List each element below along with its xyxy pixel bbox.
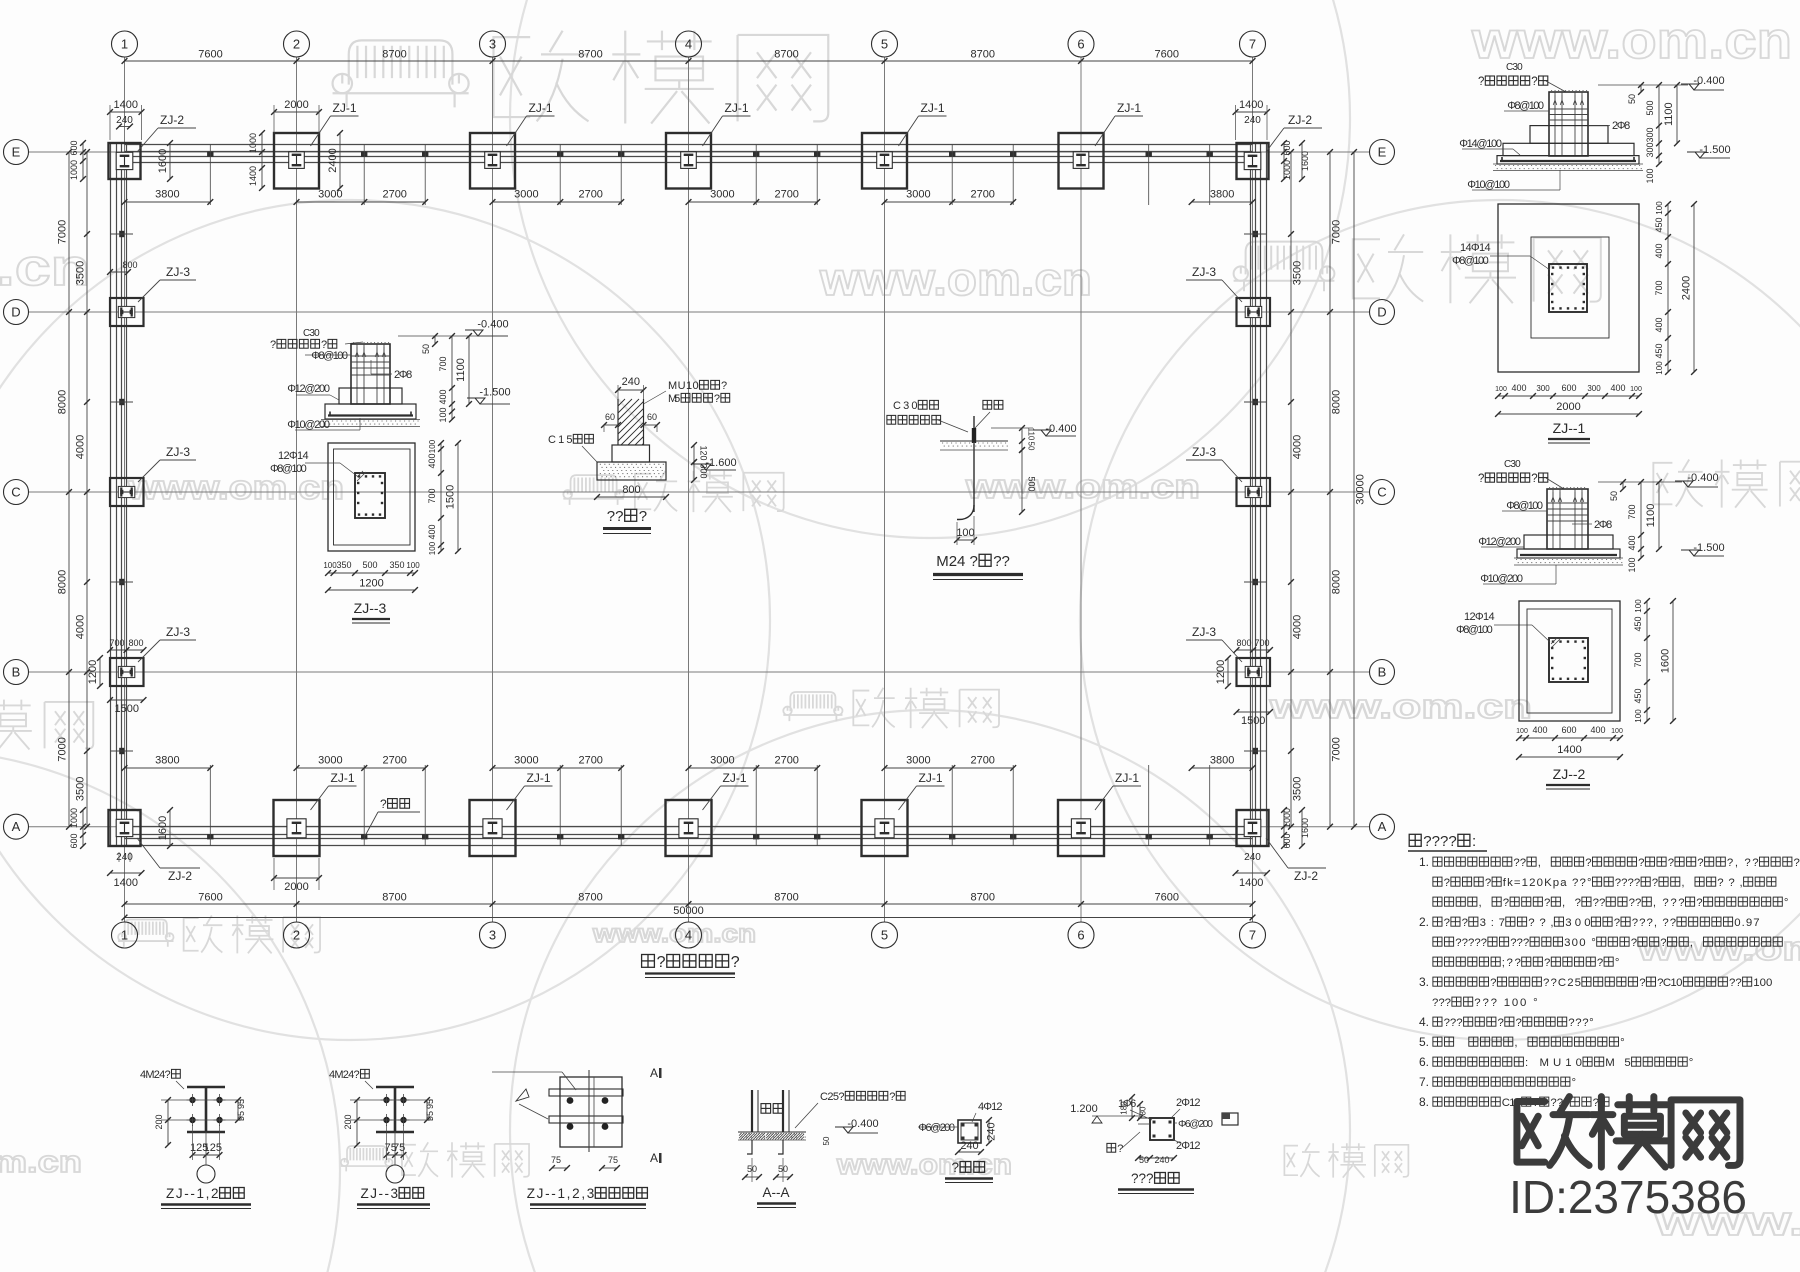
- svg-text:500: 500: [1027, 476, 1037, 491]
- svg-text:1600: 1600: [1300, 818, 1310, 838]
- detail ZJ-3 section left labels: [311, 350, 348, 362]
- svg-text:Φ8@100: Φ8@100: [1507, 100, 1544, 112]
- svg-text:ZJ-1: ZJ-1: [527, 771, 551, 785]
- svg-text:400: 400: [1511, 383, 1526, 393]
- footing ZJ-1 row A axis 2: [274, 800, 320, 856]
- svg-text:Φ10@200: Φ10@200: [1480, 573, 1523, 585]
- svg-text:?: ?: [1444, 877, 1450, 889]
- axis circles top: [112, 31, 138, 57]
- svg-text:°: °: [1689, 1057, 1694, 1069]
- footing ZJ-3 axis7 row B: [1237, 658, 1271, 686]
- svg-text:??? 100 °: ??? 100 °: [1474, 997, 1537, 1009]
- svg-text:7600: 7600: [1155, 892, 1179, 904]
- corner small dims top-right 1400 240: [1236, 111, 1268, 113]
- svg-text:2Φ8: 2Φ8: [394, 369, 412, 381]
- svg-text:°: °: [1572, 1077, 1577, 1089]
- footing ZJ-2 corner axis7/A: [1237, 810, 1269, 846]
- svg-text:450: 450: [1633, 688, 1643, 703]
- svg-text:ZJ--1,2,3: ZJ--1,2,3: [527, 1186, 595, 1201]
- svg-text:Φ10@200: Φ10@200: [287, 419, 330, 431]
- svg-text:350: 350: [336, 560, 351, 570]
- detail ZJ-1 section steps: [1530, 126, 1608, 144]
- svg-text:?: ?: [731, 954, 740, 971]
- corner small dims top-left 1400 240: [110, 111, 142, 113]
- svg-text:75: 75: [608, 1155, 618, 1165]
- svg-text:60: 60: [647, 412, 657, 422]
- detail strip footing dim 240: [618, 389, 644, 391]
- svg-text:????: ????: [1615, 877, 1640, 889]
- svg-text:Φ8@100: Φ8@100: [311, 350, 348, 362]
- watermark sofa+logo row5 left: [118, 916, 320, 954]
- right overall dimension 30000: [1353, 152, 1355, 827]
- detail shear plate leaders: [492, 1071, 562, 1073]
- svg-text:1: 1: [121, 928, 128, 943]
- label ZJ-2 top-right with leader: [1266, 128, 1284, 152]
- svg-text:4: 4: [685, 37, 692, 52]
- svg-text:2700: 2700: [970, 755, 994, 767]
- svg-text:3800: 3800: [155, 755, 179, 767]
- svg-text:8700: 8700: [774, 49, 798, 61]
- svg-text:400: 400: [1532, 725, 1547, 735]
- embed bolt circle mark: [386, 1165, 404, 1183]
- footing ZJ-2 corner axis7/E: [1237, 143, 1269, 179]
- svg-text:600: 600: [69, 833, 79, 848]
- detail ZJ-1 plan right dim chain: [1667, 204, 1669, 372]
- svg-text:1000: 1000: [1282, 808, 1292, 828]
- svg-text:www.om.cn: www.om.cn: [819, 253, 1092, 305]
- right inner dim chain 3500 4000 4000 3500: [1290, 152, 1292, 827]
- svg-text:C: C: [11, 485, 20, 500]
- svg-text:300: 300: [1645, 142, 1655, 157]
- svg-text:ZJ-1: ZJ-1: [725, 101, 749, 115]
- svg-text:5.: 5.: [1419, 1035, 1429, 1049]
- left inner dim chain 3500 4000 4000 3500: [86, 152, 88, 827]
- svg-text:??: ??: [1629, 897, 1642, 909]
- svg-text:1000: 1000: [1282, 160, 1292, 180]
- svg-text:?: ?: [1660, 937, 1666, 949]
- svg-text:°: °: [1620, 1037, 1625, 1049]
- detail ZJ-3 plan column with rebar: [355, 473, 385, 518]
- axis 7 strip foundation wall lines: [1250, 143, 1252, 847]
- footing ZJ-2 corner axis1/E: [109, 143, 141, 179]
- svg-text:ZJ-1: ZJ-1: [1115, 771, 1139, 785]
- svg-text:,: ,: [1514, 1037, 1517, 1049]
- svg-text:100: 100: [428, 439, 437, 453]
- svg-text:4000: 4000: [1292, 435, 1304, 459]
- row A sub dimension chains 3800 / 3000 2700: [125, 767, 211, 769]
- svg-text:°: °: [1615, 957, 1620, 969]
- watermark sofa+logo bottom row: [341, 1142, 529, 1177]
- svg-text:Φ8@100: Φ8@100: [270, 463, 307, 475]
- svg-text:8700: 8700: [971, 892, 995, 904]
- svg-text:2Φ8: 2Φ8: [1594, 519, 1612, 531]
- svg-text::: :: [1472, 833, 1476, 850]
- svg-text:12Φ14: 12Φ14: [278, 450, 309, 462]
- svg-text:?: ?: [889, 1091, 895, 1103]
- svg-text:2000: 2000: [1556, 401, 1580, 413]
- svg-text:600: 600: [1282, 833, 1292, 848]
- svg-text:Φ12@200: Φ12@200: [1478, 536, 1521, 548]
- svg-text:800: 800: [1236, 638, 1251, 648]
- notes line cont: [1432, 997, 1538, 1009]
- label ZJ-2 bottom-left with leader: [137, 838, 160, 868]
- svg-text:A: A: [650, 1066, 658, 1080]
- svg-text:100: 100: [1611, 728, 1623, 735]
- axis circles left: [4, 140, 29, 165]
- detail ZJ-2 plan outer square: [1519, 601, 1620, 721]
- labels ZJ-1 row A with leaders: [311, 786, 329, 810]
- svg-text:ZJ-1: ZJ-1: [723, 771, 747, 785]
- svg-text:400: 400: [1654, 243, 1664, 258]
- svg-text:?: ?: [952, 1160, 960, 1175]
- detail strip footing right dims: [693, 445, 695, 462]
- svg-text:300: 300: [1565, 917, 1590, 929]
- embed bolt dims: [356, 1100, 358, 1145]
- detail ZJ-3 plan bottom dim chain: [328, 572, 415, 574]
- svg-text:??: ??: [993, 553, 1010, 570]
- svg-text:240: 240: [986, 1122, 998, 1140]
- detail A-A ground hatch: [738, 1131, 806, 1133]
- detail A-A labels: [761, 1104, 783, 1114]
- svg-text:4: 4: [685, 928, 692, 943]
- svg-text:-0.400: -0.400: [1687, 472, 1718, 484]
- svg-text:4000: 4000: [75, 435, 87, 459]
- svg-text:2700: 2700: [774, 189, 798, 201]
- detail strip footing title: [607, 508, 647, 525]
- svg-text:2: 2: [293, 37, 300, 52]
- svg-text:?: ?: [1544, 897, 1550, 909]
- detail strip footing label C15: [548, 434, 593, 446]
- svg-text:Φ6@200: Φ6@200: [1178, 1118, 1213, 1130]
- svg-text:3800: 3800: [155, 189, 179, 201]
- svg-text:400: 400: [1627, 535, 1637, 550]
- svg-text:M24 ?: M24 ?: [936, 553, 978, 570]
- svg-text:M5: M5: [668, 393, 680, 405]
- svg-text:500: 500: [1645, 100, 1655, 115]
- svg-text:?: ?: [1614, 917, 1620, 929]
- svg-text:2700: 2700: [578, 189, 602, 201]
- svg-text:3000: 3000: [514, 755, 538, 767]
- svg-text:450: 450: [1633, 616, 1643, 631]
- svg-text:E: E: [1378, 145, 1387, 160]
- svg-text:ZJ-2: ZJ-2: [168, 869, 192, 883]
- svg-text:1500: 1500: [115, 703, 139, 715]
- detail ZJ-1,2 embed title: [166, 1186, 244, 1201]
- svg-text:240: 240: [622, 376, 640, 388]
- detail ZJ-1 section slab and mat: [1497, 156, 1639, 164]
- svg-text:100: 100: [1753, 977, 1772, 989]
- svg-text:C30: C30: [893, 400, 918, 412]
- svg-text:???: ???: [1131, 1171, 1154, 1186]
- svg-text:1000: 1000: [69, 160, 79, 180]
- svg-text:ZJ--3: ZJ--3: [361, 1186, 399, 1201]
- svg-text:1500: 1500: [1241, 715, 1265, 727]
- detail M24 ground line with speckle: [940, 440, 1008, 442]
- svg-text:4000: 4000: [1292, 615, 1304, 639]
- svg-text:400: 400: [1610, 383, 1625, 393]
- svg-text:700: 700: [1627, 504, 1637, 519]
- label constructional column row A with leader: [365, 812, 378, 836]
- svg-text:100: 100: [323, 561, 337, 570]
- svg-text:100: 100: [1627, 557, 1637, 572]
- axis circles right: [1370, 140, 1395, 165]
- svg-text:50: 50: [421, 344, 431, 354]
- svg-text:?: ?: [1531, 76, 1537, 88]
- svg-text:?: ?: [1490, 977, 1496, 989]
- svg-text:100: 100: [1655, 201, 1664, 215]
- detail M24 label top: [983, 400, 1003, 409]
- corner rotated dims top-left 600 1000 1600: [82, 143, 84, 179]
- svg-text:?: ?: [1516, 1017, 1522, 1029]
- svg-text:1400: 1400: [248, 166, 258, 186]
- svg-text:100: 100: [428, 541, 437, 555]
- svg-text:-1.600: -1.600: [705, 457, 736, 469]
- svg-text:om.cn: om.cn: [0, 1144, 82, 1179]
- svg-text:ZJ-1: ZJ-1: [529, 101, 553, 115]
- svg-text:?: ?: [721, 380, 727, 392]
- svg-text:400: 400: [1590, 725, 1605, 735]
- svg-text:300: 300: [1587, 384, 1601, 393]
- svg-text:1600: 1600: [157, 149, 169, 173]
- svg-text:50: 50: [1027, 442, 1036, 451]
- svg-text:7000: 7000: [1331, 737, 1343, 761]
- svg-text:ZJ-1: ZJ-1: [921, 101, 945, 115]
- detail ring beam title: [1131, 1171, 1179, 1186]
- svg-text:3500: 3500: [75, 261, 87, 285]
- svg-text:ZJ-2: ZJ-2: [1288, 113, 1312, 127]
- svg-text:,: ,: [1538, 857, 1541, 869]
- svg-text:100: 100: [1645, 168, 1655, 183]
- svg-text:2400: 2400: [1681, 276, 1693, 300]
- svg-text:?: ?: [1585, 857, 1591, 869]
- detail ZJ-3 embed title: [361, 1186, 424, 1201]
- bottom overall dimension 50000: [125, 917, 1253, 919]
- svg-text:ZJ-1: ZJ-1: [331, 771, 355, 785]
- svg-text:?: ?: [1498, 1017, 1504, 1029]
- svg-text:A: A: [1378, 819, 1387, 834]
- svg-text:D: D: [1377, 305, 1386, 320]
- svg-text:ZJ-1: ZJ-1: [333, 101, 357, 115]
- svg-text:1500: 1500: [445, 485, 457, 509]
- detail ZJ-1 section labels C30: [1506, 62, 1523, 73]
- svg-text:2Φ12: 2Φ12: [1176, 1140, 1201, 1152]
- svg-text:180: 180: [1120, 1101, 1129, 1115]
- svg-text:2Φ12: 2Φ12: [1176, 1097, 1201, 1109]
- detail ring beam dims: [1131, 1097, 1133, 1118]
- bottom dimension chain 7600+8700x4+7600: [125, 903, 1253, 905]
- svg-text:350: 350: [389, 560, 404, 570]
- svg-text:?: ?: [1597, 957, 1603, 969]
- svg-text:D: D: [11, 305, 20, 320]
- detail ZJ-2 plan right dim chain: [1646, 601, 1648, 721]
- footing ZJ-1 row A axis 4: [666, 800, 712, 856]
- svg-text:8000: 8000: [1331, 390, 1343, 414]
- svg-text:?: ?: [1631, 937, 1637, 949]
- svg-text:?: ?: [1639, 977, 1645, 989]
- detail ZJ-3 plan outer squares: [328, 443, 415, 551]
- row E strip foundation wall lines: [125, 144, 1253, 146]
- footing ZJ-1 row E axis 4: [666, 133, 711, 189]
- svg-text:??: ??: [1513, 857, 1526, 869]
- detail M24 title: [936, 553, 1010, 570]
- footing ZJ-3 axis7 row D: [1237, 298, 1271, 326]
- svg-text:8000: 8000: [1331, 570, 1343, 594]
- svg-text:7600: 7600: [198, 892, 222, 904]
- svg-text:1: 1: [121, 37, 128, 52]
- svg-text:100: 100: [1634, 709, 1643, 723]
- svg-text:400: 400: [427, 524, 437, 539]
- axis grid vertical lines 1-7: [125, 57, 1253, 922]
- svg-text:95: 95: [425, 1099, 435, 1109]
- svg-text:??: ??: [1729, 977, 1742, 989]
- svg-text:0.97: 0.97: [1734, 917, 1759, 929]
- detail column base shear plate: [560, 1077, 622, 1147]
- svg-text:www.om.cn: www.om.cn: [127, 469, 344, 507]
- watermark sofa+logo row4 center: [783, 688, 999, 728]
- svg-text:ZJ-1: ZJ-1: [1117, 101, 1141, 115]
- svg-text:,: ,: [1681, 877, 1684, 889]
- svg-text:?: ?: [1462, 917, 1468, 929]
- svg-text:8700: 8700: [578, 49, 602, 61]
- axis7 row B dims 800 700 1200 1500: [1237, 649, 1271, 651]
- svg-text:4M24?: 4M24?: [140, 1069, 171, 1081]
- svg-text:ZJ-2: ZJ-2: [1294, 869, 1318, 883]
- svg-text:50: 50: [1139, 1155, 1149, 1165]
- svg-text:2Φ8: 2Φ8: [1612, 120, 1630, 132]
- svg-text:3000: 3000: [906, 189, 930, 201]
- svg-text:1400: 1400: [114, 99, 138, 111]
- footing ZJ-3 axis1 row D: [110, 298, 144, 326]
- svg-text:????: ????: [1423, 833, 1456, 850]
- detail strip footing wall with hatch: [617, 399, 619, 445]
- svg-text:??,: ??,: [1717, 877, 1742, 889]
- svg-text:100: 100: [406, 561, 420, 570]
- svg-text:1100: 1100: [455, 358, 467, 382]
- svg-text:2700: 2700: [970, 189, 994, 201]
- svg-text:Φ10@100: Φ10@100: [1467, 179, 1510, 191]
- detail ZJ-3 section column: [351, 344, 390, 404]
- svg-text:?: ?: [1478, 473, 1484, 485]
- svg-text:ZJ--1: ZJ--1: [1553, 420, 1586, 436]
- svg-text:1600: 1600: [1660, 649, 1672, 673]
- svg-text:3800: 3800: [1210, 755, 1234, 767]
- footing ZJ-1 row A axis 3: [470, 800, 516, 856]
- svg-text:700: 700: [1654, 280, 1664, 295]
- svg-text:30000: 30000: [1355, 474, 1367, 505]
- svg-text:1400: 1400: [1239, 877, 1263, 889]
- constructional column dots row A: [207, 834, 213, 839]
- detail A-A dims 50 50: [745, 1176, 759, 1178]
- svg-text:50: 50: [822, 1136, 831, 1145]
- detail ZJ-3 plan leader labels 12-14 8-100: [278, 450, 309, 462]
- svg-text:-0.400: -0.400: [1045, 423, 1076, 435]
- detail ZJ-1 section labels: [1507, 100, 1544, 112]
- svg-text:1200: 1200: [1215, 660, 1227, 684]
- svg-text:A: A: [12, 819, 21, 834]
- detail constructional column dims: [958, 1151, 981, 1153]
- svg-text:700: 700: [109, 638, 124, 648]
- svg-text:100: 100: [1655, 361, 1664, 375]
- detail ZJ-1 plan leader labels: [1460, 242, 1491, 254]
- svg-text:ZJ-3: ZJ-3: [1192, 265, 1216, 279]
- svg-text:300: 300: [1536, 384, 1550, 393]
- svg-text:?: ?: [1117, 1143, 1123, 1155]
- axis1 row B dims 700 800 1200 1500: [110, 649, 144, 651]
- svg-text:8700: 8700: [774, 892, 798, 904]
- notes line cont: [1433, 877, 1776, 889]
- detail ZJ-3 section footing steps and slab: [339, 388, 402, 404]
- corner small dims bottom-right 1400 240: [1236, 872, 1268, 874]
- svg-text:A: A: [650, 1151, 658, 1165]
- svg-text:3.: 3.: [1419, 975, 1429, 989]
- svg-text:?: ?: [1544, 957, 1550, 969]
- svg-text:240: 240: [1244, 852, 1261, 863]
- constructional column dots axis1: [119, 231, 124, 237]
- svg-text:1400: 1400: [1239, 99, 1263, 111]
- svg-text:8700: 8700: [578, 892, 602, 904]
- svg-text:1.: 1.: [1419, 855, 1429, 869]
- svg-text:1100: 1100: [1663, 102, 1675, 126]
- detail ZJ-2 section column: [1547, 489, 1588, 549]
- svg-text:ZJ-3: ZJ-3: [1192, 625, 1216, 639]
- svg-text:ZJ--3: ZJ--3: [354, 600, 387, 616]
- detail ZJ-3 section grout label: [303, 328, 320, 339]
- svg-text:75: 75: [551, 1155, 561, 1165]
- svg-text:14Φ14: 14Φ14: [1460, 242, 1491, 254]
- svg-text:60: 60: [605, 412, 615, 422]
- svg-text:?: ?: [1652, 877, 1658, 889]
- svg-text:,: ,: [1690, 937, 1693, 949]
- svg-text:B: B: [12, 665, 21, 680]
- svg-text:C30: C30: [1506, 62, 1523, 73]
- svg-text:?: ?: [1638, 857, 1644, 869]
- svg-text:2700: 2700: [578, 755, 602, 767]
- footing ZJ-1 row E axis 3: [470, 133, 515, 189]
- svg-text:5: 5: [881, 928, 888, 943]
- label ZJ-2 bottom-right with leader: [1266, 838, 1288, 868]
- top dimension chain 7600+8700x4+7600: [125, 60, 1253, 62]
- footing ZJ-3 axis1 row B: [110, 658, 144, 686]
- svg-text:100: 100: [438, 407, 448, 422]
- svg-text:800: 800: [128, 638, 143, 648]
- svg-text:???, ??: ???, ??: [1632, 917, 1676, 929]
- svg-text:6: 6: [1077, 37, 1084, 52]
- svg-text:7.: 7.: [1419, 1075, 1429, 1089]
- svg-text:450: 450: [1654, 343, 1664, 358]
- axis grid horizontal lines A-E: [29, 152, 1369, 827]
- svg-text:Φ14@100: Φ14@100: [1459, 138, 1502, 150]
- labels ZJ-3 axis7 with leaders: [1222, 280, 1242, 302]
- svg-text:95: 95: [236, 1099, 246, 1109]
- svg-text:???: ???: [1510, 937, 1529, 949]
- svg-text:2: 2: [293, 928, 300, 943]
- svg-text:8000: 8000: [57, 390, 69, 414]
- svg-text:?????: ?????: [1455, 937, 1487, 949]
- svg-text:-0.400: -0.400: [1693, 75, 1724, 87]
- svg-text:?: ?: [1478, 76, 1484, 88]
- watermark row1 sofa+logo top-left: [333, 31, 829, 124]
- plan title: [642, 954, 740, 971]
- svg-text:www.om.cn: www.om.cn: [592, 920, 756, 948]
- svg-text:ID:2375386: ID:2375386: [1509, 1171, 1747, 1223]
- footing ZJ-1 row E axis 5: [862, 133, 907, 189]
- notes line cont: [1433, 937, 1782, 949]
- svg-text:4M24?: 4M24?: [329, 1069, 360, 1081]
- svg-text:??: ??: [607, 508, 624, 525]
- svg-text:??,: ??,: [1528, 917, 1553, 929]
- svg-text:2000: 2000: [284, 99, 308, 111]
- svg-text:1400: 1400: [114, 877, 138, 889]
